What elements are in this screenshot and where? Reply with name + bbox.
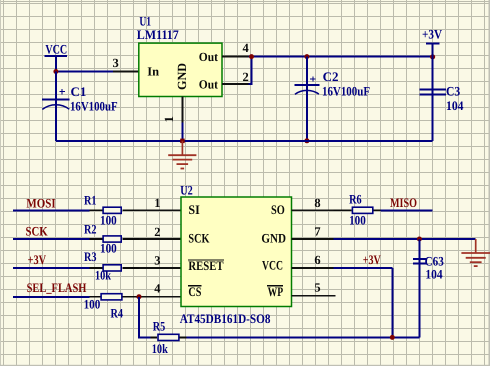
ground symbol (top) — [168, 141, 196, 169]
wire R3 to pin3 — [123, 267, 140, 269]
svg-text:MOSI: MOSI — [26, 196, 55, 211]
svg-text:10k: 10k — [95, 267, 112, 282]
pin 2 of U1 — [222, 83, 249, 85]
svg-text:+3V: +3V — [28, 252, 47, 267]
svg-text:+3V: +3V — [363, 252, 381, 267]
junction SEL_FLASH/R5 branch — [137, 294, 142, 299]
svg-text:SEL_FLASH: SEL_FLASH — [27, 280, 87, 295]
svg-text:4: 4 — [243, 41, 250, 55]
resistor R3 — [84, 249, 121, 282]
svg-text:R2: R2 — [84, 222, 97, 237]
pin 3 of U2 — [140, 267, 182, 269]
wire +3V rail (top) — [249, 56, 433, 58]
power port VCC — [45, 41, 68, 71]
wire R4 to pin4 — [123, 296, 137, 298]
svg-text:C3: C3 — [446, 84, 461, 99]
resistor R6 — [349, 192, 373, 228]
sheet right edge — [489, 0, 490, 366]
capacitor C1 — [42, 72, 117, 141]
junction ground bus/C2 — [304, 138, 309, 143]
svg-text:VCC: VCC — [262, 258, 283, 273]
svg-text:R1: R1 — [84, 192, 97, 207]
flash chip U2 — [180, 182, 292, 326]
svg-text:8: 8 — [314, 196, 320, 210]
svg-text:U2: U2 — [180, 182, 193, 197]
svg-text:In: In — [147, 64, 159, 78]
svg-text:5: 5 — [314, 281, 320, 295]
capacitor C3 — [419, 57, 464, 141]
svg-text:GND: GND — [261, 231, 286, 246]
svg-text:100: 100 — [84, 296, 101, 311]
svg-text:4: 4 — [154, 282, 161, 296]
resistor R2 — [84, 222, 121, 256]
sheet left edge — [0, 0, 1, 366]
wire U1 pin2 up to rail — [249, 57, 252, 84]
svg-text:100: 100 — [349, 212, 366, 227]
junction rail/pin2 — [249, 54, 254, 59]
svg-text:SI: SI — [188, 202, 199, 217]
pin 1 of U2 — [140, 209, 182, 211]
svg-text:100: 100 — [100, 240, 117, 255]
junction rail/C2 — [304, 54, 309, 59]
svg-text:3: 3 — [154, 253, 160, 267]
wire branch down to R5 — [139, 297, 150, 338]
wire +3V drop down — [391, 268, 393, 338]
svg-text:C1: C1 — [71, 84, 87, 99]
wire R6 to MISO — [374, 209, 381, 211]
svg-text:LM1117: LM1117 — [137, 27, 179, 42]
svg-text:10k: 10k — [152, 341, 169, 356]
svg-text:3: 3 — [113, 56, 119, 70]
wire SEL_FLASH — [13, 296, 90, 298]
power port +3V (top right) — [422, 27, 443, 57]
svg-text:104: 104 — [425, 267, 443, 282]
svg-text:SO: SO — [271, 202, 285, 217]
capacitor C63 — [413, 239, 444, 337]
wire R1 to pin1 — [123, 209, 140, 211]
svg-text:Out: Out — [199, 78, 219, 92]
svg-text:2: 2 — [243, 70, 249, 84]
ground bus wire — [56, 140, 433, 142]
svg-text:+3V: +3V — [422, 27, 443, 42]
pin 6 of U2 — [292, 267, 334, 269]
svg-text:6: 6 — [314, 253, 320, 267]
wire SCK — [13, 238, 90, 240]
svg-text:1: 1 — [162, 116, 176, 122]
svg-text:AT45DB161D-SO8: AT45DB161D-SO8 — [180, 311, 271, 326]
resistor R5 — [152, 319, 179, 357]
wire pin6 to +3V drop — [334, 267, 393, 269]
wire pin7 to ground — [334, 238, 476, 240]
junction pin7/C63 — [417, 237, 422, 242]
wire R2 to pin2 — [123, 238, 140, 240]
svg-text:100: 100 — [100, 213, 117, 228]
svg-text:7: 7 — [314, 225, 320, 239]
pin 3 of U1 — [113, 71, 139, 73]
wire +3V row — [13, 267, 90, 269]
junction +3V/R5 wire — [390, 335, 395, 340]
ground symbol (right) — [461, 239, 490, 266]
pin 4 of U1 — [222, 56, 249, 58]
wire R5 to C63 bottom — [180, 336, 187, 338]
wire pin8 to R6 — [334, 209, 352, 211]
pin 4 of U2 — [140, 296, 182, 298]
svg-text:16V100uF: 16V100uF — [70, 99, 118, 114]
svg-text:R4: R4 — [111, 305, 124, 320]
svg-text:SCK: SCK — [188, 231, 210, 246]
pin 5 of U2 — [292, 295, 336, 297]
wire U1 pin1 to ground bus — [181, 123, 183, 141]
svg-text:R3: R3 — [84, 249, 97, 264]
svg-text:Out: Out — [199, 50, 219, 64]
junction bus/U1 gnd — [180, 139, 185, 144]
svg-text:GND: GND — [175, 63, 189, 90]
svg-text:VCC: VCC — [45, 41, 67, 56]
wire VCC node to U1 In — [56, 71, 113, 73]
junction rail/+3V — [430, 54, 435, 59]
capacitor C2 — [295, 57, 370, 141]
svg-text:16V100uF: 16V100uF — [322, 84, 370, 99]
sheet bottom edge — [0, 365, 490, 366]
pin 7 of U2 — [292, 238, 334, 240]
pin 2 of U2 — [140, 238, 182, 240]
regulator U1 — [137, 13, 222, 96]
resistor R1 — [84, 192, 121, 227]
svg-text:C2: C2 — [323, 69, 339, 84]
svg-text:1: 1 — [154, 196, 160, 210]
svg-text:104: 104 — [446, 98, 464, 113]
svg-text:2: 2 — [154, 225, 160, 239]
svg-text:SCK: SCK — [26, 224, 49, 239]
pin 1 of U1 — [181, 97, 183, 123]
junction VCC node — [53, 69, 58, 74]
wire MOSI — [13, 209, 90, 211]
resistor R4 — [84, 294, 124, 321]
svg-text:MISO: MISO — [390, 195, 417, 210]
svg-text:R5: R5 — [153, 319, 166, 334]
pin 8 of U2 — [292, 209, 334, 211]
svg-text:R6: R6 — [349, 192, 362, 207]
